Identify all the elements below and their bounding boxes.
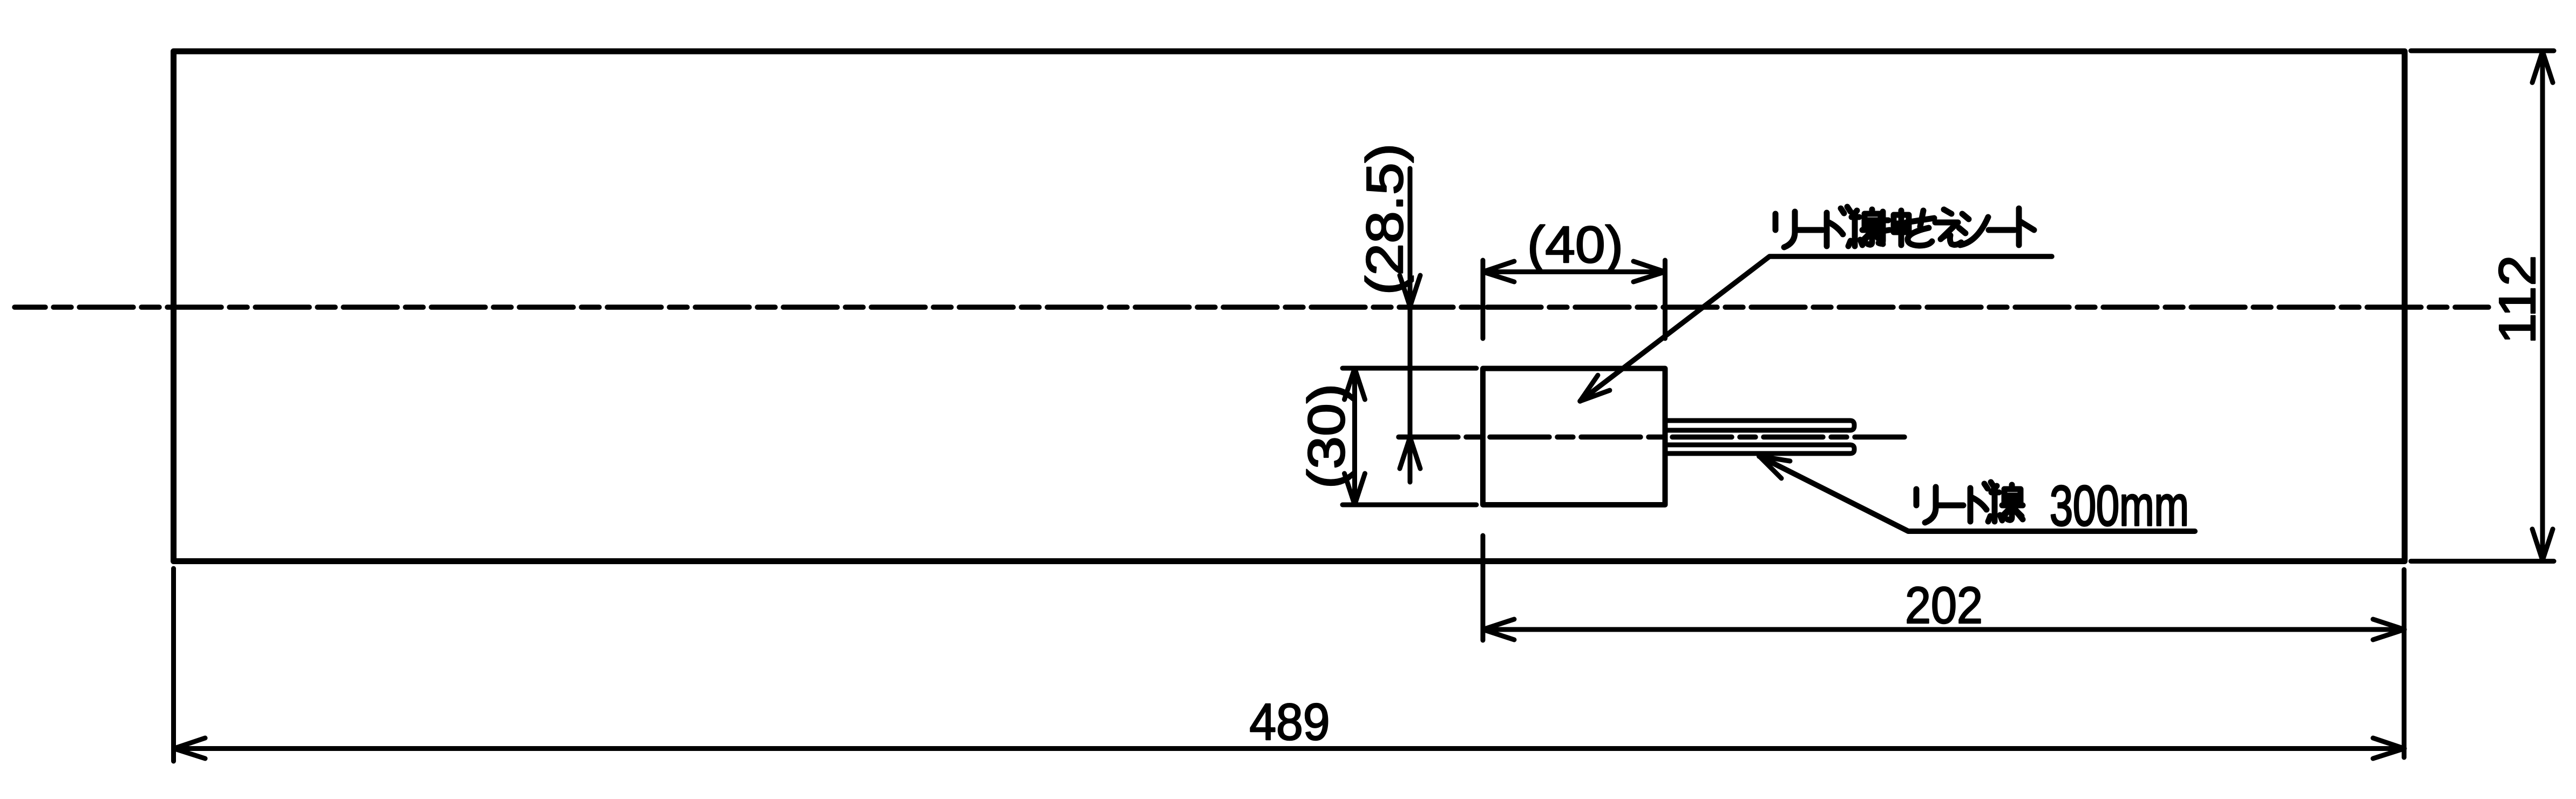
- leader 2 arrowhead: [1759, 456, 1790, 478]
- label lead wire holding sheet text: [1775, 207, 2034, 247]
- dim 30 extension line top: [1343, 366, 1476, 371]
- dim 489 extension line left: [171, 568, 176, 761]
- dim 40 line: [1483, 269, 1665, 274]
- main centerline: [15, 304, 2489, 310]
- svg-text:(30): (30): [1298, 384, 1355, 489]
- dim 40 arrow left: [1483, 261, 1514, 282]
- dim 489 line: [174, 746, 2404, 751]
- svg-text:489: 489: [1250, 693, 1330, 751]
- svg-text:112: 112: [2489, 255, 2546, 344]
- dim 30 extension line bottom: [1343, 503, 1476, 507]
- dim 40 extension line right: [1663, 260, 1667, 338]
- dim 112 arrow bottom: [2532, 529, 2553, 560]
- dim 202 line: [1483, 627, 2404, 632]
- dim 112 line: [2540, 52, 2545, 560]
- lower lead wire: [1667, 445, 1854, 453]
- dim 28.5 arrow down: [1400, 275, 1420, 307]
- label lead wire 300mm kana: [1916, 482, 2023, 523]
- leader line 2: [1759, 456, 2195, 531]
- dim 489 arrow right: [2373, 738, 2404, 759]
- dim 40 extension line left: [1481, 260, 1486, 338]
- svg-text:(40): (40): [1527, 216, 1623, 274]
- leader 1 arrowhead: [1580, 375, 1610, 401]
- inner rect lead wire holding sheet: [1483, 369, 1665, 505]
- dim 30 line: [1352, 368, 1357, 505]
- dim 112 extension line bottom: [2411, 559, 2554, 564]
- dim 28.5 line: [1408, 168, 1413, 482]
- dim 489 arrow left: [174, 738, 205, 759]
- dim 28.5 arrow up: [1400, 437, 1420, 469]
- dim 202 arrow left: [1483, 619, 1514, 640]
- svg-text:300mm: 300mm: [2050, 475, 2189, 538]
- svg-text:202: 202: [1905, 577, 1983, 634]
- dim 30 arrow top: [1345, 368, 1365, 399]
- dim 40 arrow right: [1633, 261, 1665, 282]
- svg-text:(28.5): (28.5): [1356, 144, 1414, 295]
- sheet outline 489x112: [174, 51, 2405, 561]
- wire centerline: [1399, 435, 1904, 440]
- dim 489 extension line right: [2402, 570, 2406, 757]
- dim 30 arrow bottom: [1345, 473, 1365, 505]
- dim 202 extension line left: [1481, 536, 1486, 640]
- leader line 1: [1580, 256, 2052, 401]
- dim 112 arrow top: [2532, 51, 2553, 83]
- dim 112 extension line top: [2411, 49, 2554, 53]
- dim 202 arrow right: [2373, 619, 2404, 640]
- upper lead wire: [1667, 421, 1854, 430]
